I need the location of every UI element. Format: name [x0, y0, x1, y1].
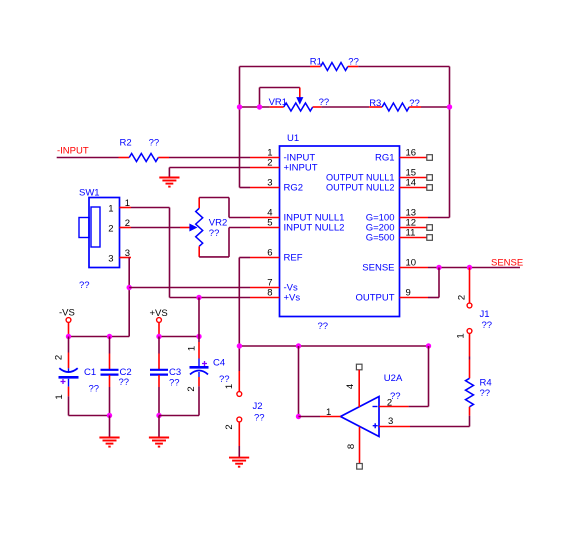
svg-text:??: ?? [149, 138, 160, 149]
svg-text:8: 8 [267, 288, 272, 299]
SW1 pin 1 [120, 207, 132, 209]
ground [109, 416, 111, 438]
svg-text:??: ?? [482, 320, 493, 331]
wire [169, 157, 250, 159]
wire [169, 167, 250, 169]
svg-text:R4: R4 [480, 378, 492, 389]
svg-text:VR1: VR1 [269, 97, 287, 108]
node junction [156, 334, 161, 339]
node junction [296, 343, 301, 348]
potentiometer VR2 [198, 198, 200, 209]
wire [410, 426, 470, 428]
op-amp U1 instrumentation amplifier [280, 146, 400, 317]
wire [168, 168, 170, 178]
node junction [426, 343, 431, 348]
wire [128, 258, 130, 337]
ground [159, 177, 179, 179]
wire [131, 227, 180, 229]
resistor R1 [310, 66, 321, 68]
capacitor C2 [109, 337, 111, 354]
node junction [237, 104, 242, 109]
svg-text:??: ?? [318, 321, 329, 332]
potentiometer VR1 [270, 106, 284, 108]
svg-text:2: 2 [456, 295, 467, 300]
wire [358, 66, 449, 68]
svg-text:??: ?? [169, 378, 180, 389]
svg-text:4: 4 [345, 384, 356, 389]
wire [438, 268, 440, 298]
svg-text:R1: R1 [310, 57, 322, 68]
svg-text:??: ?? [480, 388, 491, 399]
wire [198, 298, 200, 337]
svg-text:??: ?? [79, 280, 90, 291]
U2A pin 3 non-inverting input [379, 426, 410, 428]
svg-text:6: 6 [267, 248, 272, 259]
svg-text:2: 2 [387, 398, 392, 409]
svg-text:2: 2 [224, 424, 235, 429]
wire [239, 257, 250, 259]
wire [199, 256, 229, 258]
node junction [196, 295, 201, 300]
wire [159, 336, 199, 338]
svg-text:1: 1 [108, 204, 113, 215]
svg-text:??: ?? [254, 413, 265, 424]
SW1 pin 2 [120, 227, 132, 229]
node junction [107, 334, 112, 339]
SW1 pin 3 [120, 257, 132, 259]
wire [199, 197, 229, 199]
svg-text:U2A: U2A [384, 373, 403, 384]
wire [428, 217, 450, 219]
svg-text:2: 2 [267, 158, 272, 169]
svg-text:1: 1 [224, 384, 235, 389]
svg-text:3: 3 [267, 178, 272, 189]
svg-text:+Vs: +Vs [284, 293, 301, 304]
U1 pin 6 REF [250, 257, 280, 259]
node junction [127, 285, 132, 290]
U2A pin 4 positive supply [356, 364, 362, 370]
svg-text:11: 11 [406, 228, 416, 239]
wire [129, 287, 250, 289]
svg-text:R2: R2 [120, 138, 132, 149]
node junction [467, 265, 472, 270]
U1 pin 11 G=500 [400, 237, 427, 239]
svg-text:-VS: -VS [59, 308, 75, 319]
svg-text:1: 1 [54, 394, 65, 399]
U1 pin 3 RG2 [250, 187, 280, 189]
svg-text:J2: J2 [253, 401, 263, 412]
U1 pin 8 +Vs [250, 297, 280, 299]
wire [57, 157, 119, 159]
U1 pin 1 -INPUT [250, 157, 280, 159]
ground [229, 457, 249, 459]
svg-text:2: 2 [108, 224, 113, 235]
wire [170, 297, 251, 299]
wire [469, 416, 471, 427]
node junction [436, 265, 441, 270]
wire [321, 106, 369, 108]
node junction [237, 343, 242, 348]
svg-text:VR2: VR2 [209, 217, 227, 228]
svg-text:C4: C4 [213, 358, 225, 369]
node junction [296, 414, 301, 419]
node junction [257, 104, 262, 109]
wire [131, 207, 170, 209]
svg-text:5: 5 [267, 218, 272, 229]
svg-text:14: 14 [406, 178, 417, 189]
U1 pin 5 INPUT NULL2 [250, 227, 280, 229]
wire [240, 106, 270, 108]
op-amp U2A [341, 397, 380, 437]
wire [240, 66, 311, 68]
svg-text:3: 3 [388, 416, 393, 427]
svg-text:2: 2 [186, 386, 197, 391]
svg-text:??: ?? [89, 384, 100, 395]
svg-text:??: ?? [119, 377, 130, 388]
wire [421, 106, 450, 108]
U1 pin 12 G=200 [400, 227, 427, 229]
svg-text:+INPUT: +INPUT [284, 163, 318, 174]
wire [239, 345, 428, 347]
svg-text:SENSE: SENSE [491, 258, 523, 269]
svg-text:??: ?? [209, 228, 220, 239]
node junction [156, 413, 161, 418]
wire [298, 346, 300, 417]
capacitor C4 [198, 337, 200, 343]
svg-text:RG1: RG1 [375, 153, 395, 164]
svg-text:SW1: SW1 [79, 188, 100, 199]
svg-text:8: 8 [346, 444, 357, 449]
U1 pin 4 INPUT NULL1 [250, 217, 280, 219]
svg-text:G=500: G=500 [366, 233, 395, 244]
U1 pin 7 -Vs [250, 287, 280, 289]
svg-text:1: 1 [326, 407, 331, 418]
svg-text:R3: R3 [369, 98, 381, 109]
svg-text:??: ?? [348, 57, 359, 68]
svg-text:10: 10 [406, 258, 417, 269]
wire [69, 415, 110, 417]
ground [158, 416, 160, 438]
connector J2 [238, 371, 240, 392]
wire [69, 336, 130, 338]
connector J1 [469, 268, 471, 304]
svg-text:3: 3 [108, 254, 113, 265]
U1 pin 16 RG1 [400, 157, 427, 159]
node junction [66, 334, 71, 339]
svg-text:1: 1 [187, 346, 198, 351]
svg-text:SENSE: SENSE [362, 263, 394, 274]
svg-text:??: ?? [409, 98, 420, 109]
wire [159, 415, 199, 417]
wire [409, 406, 429, 408]
svg-text:1: 1 [455, 333, 466, 338]
wire [469, 357, 471, 360]
svg-text:J1: J1 [480, 309, 490, 320]
switch SW1 [89, 198, 120, 268]
capacitor C1 [68, 337, 70, 353]
capacitor C3 [158, 337, 160, 354]
svg-text:C3: C3 [169, 367, 181, 378]
wire [169, 208, 171, 298]
wire [240, 187, 251, 189]
svg-text:OUTPUT NULL2: OUTPUT NULL2 [326, 183, 395, 194]
svg-text:RG2: RG2 [284, 183, 304, 194]
node junction [196, 334, 201, 339]
U2A pin 8 negative supply [359, 427, 361, 463]
U1 pin 14 OUTPUT NULL2 [400, 187, 427, 189]
svg-text:9: 9 [406, 288, 411, 299]
resistor R4 [469, 360, 471, 379]
node junction [107, 413, 112, 418]
wire [449, 67, 451, 218]
svg-text:2: 2 [125, 218, 130, 229]
svg-text:C1: C1 [84, 367, 96, 378]
U2A pin 2 inverting input [379, 406, 409, 408]
wire [259, 88, 261, 108]
node junction [447, 104, 452, 109]
U1 pin 15 OUTPUT NULL1 [400, 177, 427, 179]
svg-text:OUTPUT: OUTPUT [355, 293, 394, 304]
svg-text:??: ?? [219, 374, 230, 385]
svg-text:INPUT NULL2: INPUT NULL2 [284, 223, 345, 234]
U2A pin 1 output [320, 416, 341, 418]
svg-text:-INPUT: -INPUT [57, 146, 89, 157]
resistor R2 [119, 157, 130, 159]
svg-text:U1: U1 [287, 133, 299, 144]
U1 pin 2 +INPUT [250, 167, 280, 169]
wire [428, 267, 520, 269]
wire [239, 67, 241, 188]
U1 pin 9 OUTPUT [400, 297, 429, 299]
svg-text:REF: REF [284, 253, 303, 264]
U1 pin 10 SENSE [400, 267, 429, 269]
svg-text:3: 3 [125, 248, 130, 259]
svg-text:16: 16 [406, 148, 417, 159]
U1 pin 13 G=100 [400, 217, 429, 219]
resistor R3 [369, 106, 382, 108]
wire [238, 346, 240, 371]
svg-text:2: 2 [54, 355, 65, 360]
svg-text:1: 1 [125, 198, 130, 209]
